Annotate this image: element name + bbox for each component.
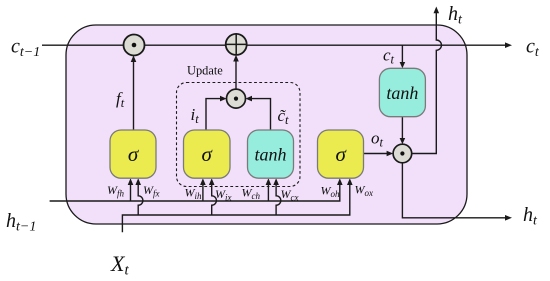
output tanh box: [379, 68, 425, 116]
wire: output gate to output multiply node: [364, 151, 394, 157]
wire: X(t) input line: [122, 178, 352, 232]
multiply node (output): [393, 144, 412, 163]
update section dashed box: [177, 83, 301, 187]
svg-text:ht: ht: [523, 204, 538, 229]
label X(t): [110, 251, 129, 279]
label c(t-1): [11, 36, 40, 61]
svg-text:tanh: tanh: [254, 145, 286, 165]
wire: candidate tanh to update multiply node: [245, 96, 270, 130]
add node: [226, 34, 247, 55]
wire: W_ih branch: [200, 178, 206, 201]
label c_t inner: [383, 46, 395, 67]
label W_fx: [143, 183, 160, 199]
wire: cell-state line c (horizontal): [42, 42, 512, 48]
wire: update multiply node to add node: [233, 55, 239, 90]
label Update: [187, 64, 223, 78]
wire: W_fx branch with hop over h line: [135, 178, 143, 215]
label W_ix: [215, 187, 232, 203]
label W_oh: [321, 184, 341, 200]
wire: forget gate to multiply node: [131, 55, 137, 130]
label W_fh: [107, 183, 125, 199]
wire: output multiply node down and right to h_t output: [402, 163, 512, 221]
label c_t right: [526, 36, 540, 61]
label h(t-1): [6, 210, 36, 235]
label f_t: [116, 89, 125, 110]
wire: c line branch down into output tanh: [400, 45, 406, 68]
label h_t bottom right: [523, 204, 538, 229]
multiply node (forget): [124, 35, 145, 56]
svg-text:σ: σ: [336, 142, 348, 166]
LSTM cell body: [66, 25, 467, 224]
svg-text:tanh: tanh: [386, 83, 418, 103]
svg-text:ct−1: ct−1: [11, 36, 40, 61]
svg-text:Xt: Xt: [110, 251, 129, 279]
svg-text:ht−1: ht−1: [6, 210, 36, 235]
wire: W_ch branch: [266, 178, 272, 201]
svg-text:σ: σ: [202, 142, 214, 166]
svg-text:ht: ht: [448, 3, 463, 28]
svg-text:ct: ct: [526, 36, 540, 61]
wire: input gate to update multiply node: [206, 96, 227, 130]
multiply node (update): [227, 89, 246, 108]
svg-text:Update: Update: [187, 64, 223, 78]
wire: h(t-1) input line: [50, 178, 343, 201]
wire: W_fh branch (h line to forget gate): [128, 178, 134, 201]
svg-text:σ: σ: [128, 142, 140, 166]
wire: output multiply node right and up to h_t top, hop over c line: [412, 7, 442, 154]
output gate box sigma: [318, 130, 364, 178]
label h_t top: [448, 3, 463, 28]
wire: W_ix branch with hop: [209, 178, 217, 215]
label W_cx: [281, 187, 299, 203]
wire: W_cx branch with hop: [273, 178, 281, 215]
wire: output tanh to output multiply node: [400, 117, 406, 144]
input gate box sigma: [184, 130, 231, 178]
label W_ox: [355, 183, 374, 199]
label W_ch: [242, 186, 261, 202]
candidate box tanh: [248, 130, 294, 178]
label W_ih: [185, 186, 203, 202]
label c~_t: [278, 106, 290, 127]
label i_t: [191, 105, 200, 126]
forget gate box sigma: [110, 130, 156, 178]
label o_t: [371, 129, 384, 150]
